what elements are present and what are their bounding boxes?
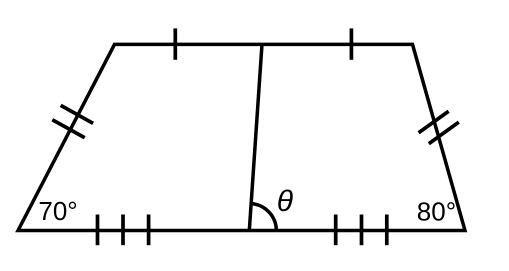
- svg-text:θ: θ: [277, 185, 294, 218]
- svg-text:80°: 80°: [417, 197, 456, 227]
- svg-text:70°: 70°: [38, 196, 77, 226]
